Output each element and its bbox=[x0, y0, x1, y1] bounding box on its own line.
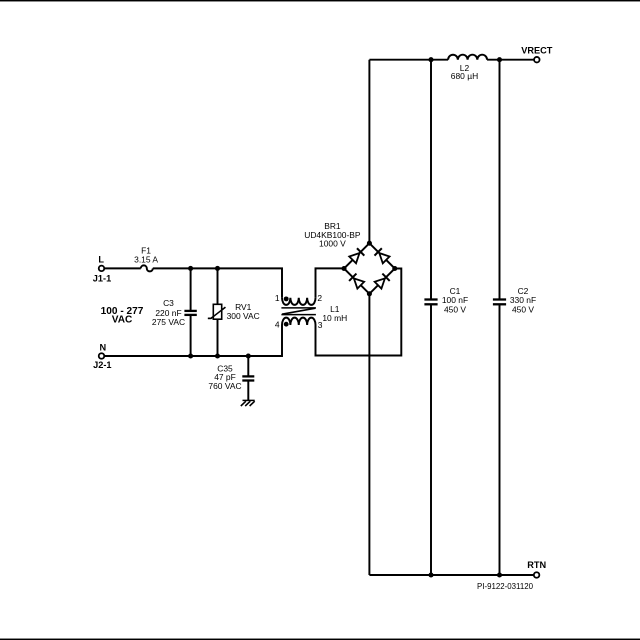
svg-text:J2-1: J2-1 bbox=[93, 360, 111, 370]
svg-text:3.15 A: 3.15 A bbox=[134, 255, 158, 265]
svg-text:N: N bbox=[99, 342, 106, 352]
svg-text:1: 1 bbox=[275, 293, 280, 303]
svg-text:680 µH: 680 µH bbox=[451, 71, 478, 81]
svg-text:L: L bbox=[98, 255, 104, 265]
svg-text:760 VAC: 760 VAC bbox=[208, 381, 241, 391]
svg-text:RTN: RTN bbox=[527, 560, 546, 570]
svg-text:275 VAC: 275 VAC bbox=[152, 317, 185, 327]
svg-text:J1-1: J1-1 bbox=[93, 273, 111, 283]
svg-text:VRECT: VRECT bbox=[521, 46, 553, 56]
svg-text:1000 V: 1000 V bbox=[319, 239, 346, 249]
svg-text:4: 4 bbox=[275, 320, 280, 330]
svg-text:450 V: 450 V bbox=[512, 304, 534, 314]
svg-text:PI-9122-031120: PI-9122-031120 bbox=[477, 582, 534, 591]
svg-text:300 VAC: 300 VAC bbox=[227, 311, 260, 321]
svg-text:450 V: 450 V bbox=[444, 304, 466, 314]
svg-text:VAC: VAC bbox=[112, 315, 133, 326]
svg-text:2: 2 bbox=[317, 293, 322, 303]
svg-text:3: 3 bbox=[318, 320, 323, 330]
svg-text:10 mH: 10 mH bbox=[322, 313, 347, 323]
svg-text:C3: C3 bbox=[163, 298, 174, 308]
